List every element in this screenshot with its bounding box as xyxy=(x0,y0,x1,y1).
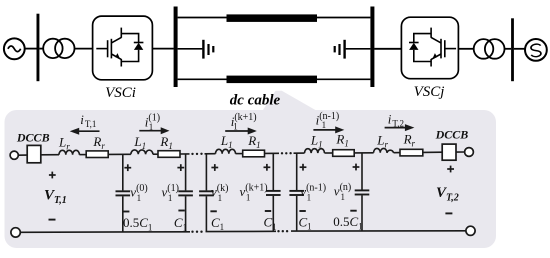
svg-text:VSCi: VSCi xyxy=(105,85,136,101)
svg-text:VSCj: VSCj xyxy=(414,84,445,100)
svg-text:DCCB: DCCB xyxy=(16,130,50,144)
svg-text:DCCB: DCCB xyxy=(435,128,469,142)
svg-text:dc cable: dc cable xyxy=(230,93,281,109)
